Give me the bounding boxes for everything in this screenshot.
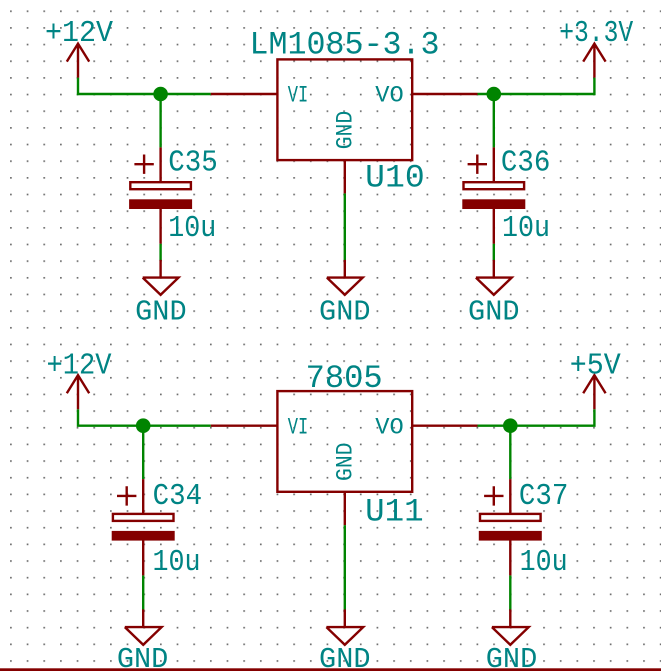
svg-text:GND: GND <box>486 643 538 671</box>
svg-text:GND: GND <box>332 443 358 482</box>
svg-text:+3.3V: +3.3V <box>559 17 634 51</box>
svg-text:+12V: +12V <box>45 17 114 51</box>
svg-text:+12V: +12V <box>47 350 113 384</box>
svg-text:GND: GND <box>117 643 169 671</box>
svg-text:LM1085-3.3: LM1085-3.3 <box>250 27 440 64</box>
svg-text:7805: 7805 <box>306 360 383 397</box>
svg-text:U11: U11 <box>365 493 424 530</box>
svg-text:VI: VI <box>288 414 309 440</box>
svg-text:10u: 10u <box>502 212 550 246</box>
svg-text:C34: C34 <box>153 480 203 514</box>
svg-text:10u: 10u <box>168 212 216 246</box>
svg-text:10u: 10u <box>153 546 201 580</box>
svg-text:C37: C37 <box>519 480 569 514</box>
svg-text:10u: 10u <box>520 546 568 580</box>
svg-text:VO: VO <box>375 83 404 109</box>
svg-text:C35: C35 <box>168 147 218 181</box>
svg-text:VO: VO <box>375 414 404 440</box>
svg-text:GND: GND <box>468 295 520 328</box>
svg-text:GND: GND <box>332 111 358 150</box>
svg-text:GND: GND <box>319 643 371 671</box>
svg-text:GND: GND <box>135 295 187 328</box>
svg-text:+5V: +5V <box>570 350 622 384</box>
svg-text:C36: C36 <box>501 147 551 181</box>
svg-text:GND: GND <box>319 295 371 328</box>
svg-text:U10: U10 <box>365 159 425 196</box>
svg-text:VI: VI <box>288 83 309 109</box>
